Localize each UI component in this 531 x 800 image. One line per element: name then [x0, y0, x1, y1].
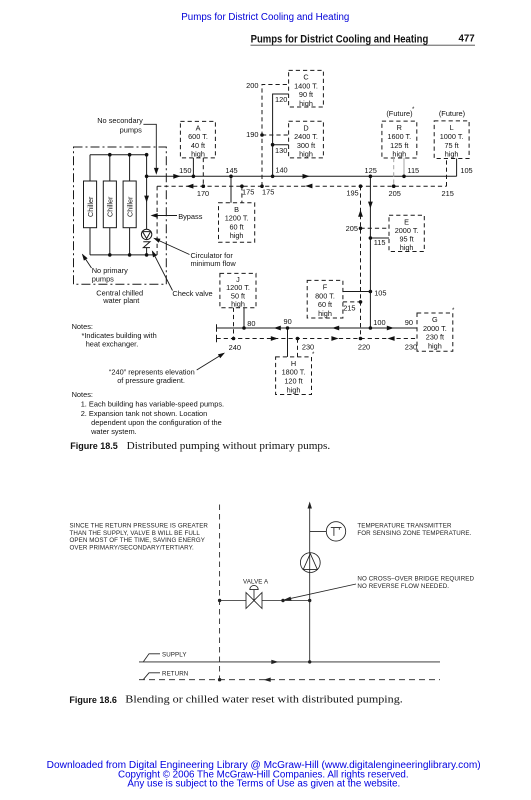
node supply at plant [145, 175, 149, 179]
node R return 205 [392, 184, 396, 188]
building H supply riser [287, 328, 289, 357]
arrowhead bypass [151, 213, 158, 218]
chiller 3 box [123, 181, 136, 228]
building L supply riser [456, 159, 458, 177]
supply main pipe (top loop) [147, 175, 457, 177]
chiller 1 riser bottom [89, 228, 91, 255]
svg-text:205: 205 [389, 189, 401, 198]
central plant dash-dot enclosure [74, 147, 167, 284]
return main line (dashed) [139, 679, 440, 681]
building L return riser (dashed) [446, 159, 448, 187]
svg-text:Figure 18.5: Figure 18.5 [70, 441, 118, 451]
node C/D supply 140 [271, 175, 275, 179]
building A box [180, 121, 215, 157]
svg-text:120: 120 [275, 95, 287, 104]
svg-text:E2000 T.95 fthigh: E2000 T.95 fthigh [395, 217, 419, 252]
building A supply riser [192, 158, 194, 176]
svg-text:D2400 T.300 fthigh: D2400 T.300 fthigh [294, 123, 318, 158]
arrow return left mid [305, 184, 312, 189]
node trunk lower return 220 [359, 337, 363, 341]
node trunk return 195 [359, 184, 363, 188]
arrowhead no-crossover leader [283, 597, 291, 601]
svg-text:170: 170 [197, 189, 209, 198]
svg-text:230: 230 [302, 342, 314, 351]
building F supply branch [343, 291, 371, 293]
building C box [289, 70, 324, 107]
arrow lower return right (west) [271, 336, 278, 341]
svg-text:Check valve: Check valve [172, 289, 212, 298]
building R return riser (gray dashed) [393, 158, 395, 186]
svg-text:dependent upon the configurati: dependent upon the configuration of the [91, 418, 222, 427]
svg-text:Notes:: Notes: [72, 390, 93, 399]
svg-text:SINCE THE RETURN PRESSURE IS G: SINCE THE RETURN PRESSURE IS GREATER [70, 523, 209, 530]
building E supply branch [370, 237, 389, 239]
arrow lower supply left (west) [274, 326, 281, 331]
chiller 3 riser top [129, 155, 131, 181]
arrow down trunk supply riser [368, 202, 373, 209]
building R supply riser (gray) [403, 158, 405, 176]
supply main line [139, 661, 440, 663]
svg-text:water system.: water system. [90, 427, 137, 436]
svg-text:Any use is subject to the Term: Any use is subject to the Terms of Use a… [127, 779, 400, 790]
svg-text:145: 145 [225, 166, 237, 175]
leader 240 note arrow [197, 354, 224, 371]
building F box [307, 280, 343, 318]
svg-text:215: 215 [442, 189, 454, 198]
svg-text:Figure 18.6: Figure 18.6 [69, 695, 117, 705]
building A return riser (dashed) [202, 158, 204, 186]
svg-text:THAN THE SUPPLY, VALVE B WILL: THAN THE SUPPLY, VALVE B WILL BE FULL [70, 530, 201, 537]
svg-text:115: 115 [407, 166, 419, 175]
leader circulator [156, 239, 190, 255]
leader check valve [153, 252, 173, 291]
chiller 1 riser top [89, 155, 91, 181]
svg-text:FOR SENSING ZONE TEMPERATURE.: FOR SENSING ZONE TEMPERATURE. [357, 530, 471, 537]
svg-text:(Future): (Future) [439, 109, 465, 118]
svg-text:G2000 T.230 fthigh: G2000 T.230 fthigh [423, 315, 447, 350]
svg-text:SUPPLY: SUPPLY [162, 651, 187, 658]
svg-text:pumps: pumps [120, 125, 142, 134]
chiller 2 riser bottom [109, 228, 111, 255]
lower loop supply main [217, 327, 418, 329]
building H return riser (dashed) [297, 339, 299, 357]
svg-text:105: 105 [374, 288, 386, 297]
svg-text:*: * [452, 308, 455, 314]
svg-text:*: * [312, 352, 315, 358]
trunk supply riser down to lower loop [369, 176, 371, 328]
node valve branch top [218, 599, 221, 602]
node J supply 80 [242, 326, 246, 330]
building G box [417, 313, 453, 351]
building J box [220, 273, 256, 307]
chiller bottom header pipe [90, 254, 157, 256]
building J return riser (dashed) [233, 308, 235, 339]
svg-text:105: 105 [460, 166, 472, 175]
temperature transmitter TT circle [326, 522, 345, 541]
node E supply 115 [369, 236, 373, 240]
node F supply 105 [369, 290, 373, 294]
svg-text:125: 125 [365, 166, 377, 175]
junction dots bottom header [108, 253, 112, 257]
svg-text:100: 100 [373, 318, 385, 327]
transmitter connector [310, 530, 327, 532]
svg-text:“240” represents elevation: “240” represents elevation [109, 367, 195, 376]
junction dots top header [108, 153, 112, 157]
node trunk lower supply 100 [369, 326, 373, 330]
trunk return riser down (dashed) [360, 186, 362, 338]
valve A actuator dome [250, 585, 258, 589]
valve branch riser (dashed) [219, 505, 221, 681]
building E box [389, 215, 424, 251]
svg-text:A600 T.40 fthigh: A600 T.40 fthigh [188, 123, 208, 158]
svg-text:140: 140 [275, 166, 287, 175]
svg-text:VALVE A: VALVE A [243, 578, 269, 585]
chiller 2 riser top [109, 155, 111, 181]
svg-text:B1200 T.60 fthigh: B1200 T.60 fthigh [225, 205, 249, 240]
node J return 240 [232, 337, 236, 341]
arrowhead supply flow [271, 660, 278, 664]
node D return 190 [260, 133, 264, 137]
leader no primary pumps [83, 255, 92, 269]
svg-text:Chiller: Chiller [86, 196, 95, 217]
svg-text:200: 200 [246, 81, 258, 90]
svg-text:Chiller: Chiller [126, 196, 135, 217]
check valve Z symbol [143, 242, 150, 248]
arrowhead 240 note leader [218, 353, 225, 359]
node C/D return 175 [260, 184, 264, 188]
chiller 2 box [103, 181, 116, 228]
bypass pipe lower stub [146, 248, 148, 255]
pump circle [300, 553, 320, 573]
building E return branch (dashed) [361, 227, 390, 229]
arrow return left near plant [186, 184, 193, 189]
return label leader [144, 673, 161, 680]
arrow lower supply left (center) [332, 326, 339, 331]
svg-text:215: 215 [343, 304, 355, 313]
node valve branch return tap [218, 678, 221, 681]
C/D return riser with elbow to C (dashed) [262, 85, 289, 187]
svg-text:190: 190 [246, 130, 258, 139]
building B return riser (dashed) [241, 186, 243, 203]
valve branch pipe right [262, 600, 310, 602]
node F return 215 [359, 300, 363, 304]
svg-text:C1400 T.90 fthigh: C1400 T.90 fthigh [294, 73, 318, 108]
svg-text:90: 90 [405, 318, 413, 327]
svg-text:minimum flow: minimum flow [191, 259, 237, 268]
svg-text:pumps: pumps [92, 275, 114, 284]
arrowhead no primary leader [82, 254, 88, 261]
chiller top header pipe [90, 154, 147, 156]
svg-text:OVER PRIMARY/SECONDARY/TERTIAR: OVER PRIMARY/SECONDARY/TERTIARY. [70, 545, 195, 552]
svg-text:175: 175 [242, 188, 254, 197]
svg-text:220: 220 [358, 342, 370, 351]
circulator symbol [141, 229, 151, 239]
zone riser pipe [309, 504, 311, 663]
pump impeller triangle [303, 554, 317, 570]
svg-text:90: 90 [284, 317, 292, 326]
valve A body bowtie [246, 593, 262, 609]
svg-text:175: 175 [262, 188, 274, 197]
node R supply 115 [402, 175, 406, 179]
svg-text:of pressure gradient.: of pressure gradient. [117, 376, 185, 385]
arrowhead up zone riser [308, 502, 312, 509]
node B return 175 [240, 184, 244, 188]
svg-text:water plant: water plant [102, 296, 139, 305]
chiller 1 box [84, 181, 97, 228]
C/D supply riser with elbow to C [273, 94, 289, 176]
svg-text:150: 150 [179, 166, 191, 175]
building F return branch (dashed) [343, 301, 361, 303]
arrowhead circulator leader [153, 238, 160, 243]
svg-text:205: 205 [346, 224, 358, 233]
svg-text:*: * [412, 107, 415, 113]
supply label leader [144, 654, 161, 662]
node E return 205 [359, 227, 363, 231]
arrowhead check valve leader [152, 250, 157, 257]
D supply branch [273, 144, 289, 146]
TT symbol marks [331, 528, 342, 536]
svg-text:RETURN: RETURN [162, 671, 188, 678]
node bridge junction [281, 599, 284, 602]
svg-text:Bypass: Bypass [178, 212, 203, 221]
header rule [251, 44, 476, 46]
arrow down bypass flow [144, 196, 149, 203]
svg-text:H1800 T.120 fthigh: H1800 T.120 fthigh [282, 359, 306, 394]
building L box (future) [434, 121, 469, 159]
svg-text:R1600 T.125 fthigh: R1600 T.125 fthigh [387, 123, 411, 158]
svg-text:80: 80 [247, 319, 255, 328]
node H supply 90 [286, 326, 290, 330]
arrow lower return right (center) [331, 336, 338, 341]
building B box [219, 203, 255, 243]
return main pipe (top loop, dashed) [157, 185, 446, 187]
arrow supply right mid [303, 174, 310, 179]
svg-text:OPEN MOST OF THE TIME, SAVING: OPEN MOST OF THE TIME, SAVING ENERGY [70, 537, 206, 544]
FIGURE 18.6 [139, 504, 440, 681]
return drop into plant (dashed) [156, 186, 158, 255]
svg-text:Pumps for District Cooling and: Pumps for District Cooling and Heating [181, 12, 349, 23]
svg-text:NO CROSS–OVER BRIDGE REQUIRED: NO CROSS–OVER BRIDGE REQUIRED [357, 576, 474, 583]
arrow down no-secondary leader [154, 168, 159, 175]
svg-text:L1000 T.75 fthigh: L1000 T.75 fthigh [440, 123, 464, 158]
lower loop return main (dashed) [217, 338, 418, 340]
svg-text:(Future): (Future) [386, 109, 412, 118]
svg-text:Blending or chilled water rese: Blending or chilled water reset with dis… [125, 695, 403, 706]
building H box [276, 357, 312, 395]
node A return 170 [202, 184, 206, 188]
svg-text:130: 130 [275, 146, 287, 155]
leader no-crossover [285, 584, 356, 600]
arrow supply right near plant [173, 174, 180, 179]
svg-text:477: 477 [459, 34, 475, 45]
chiller 3 riser bottom [129, 228, 131, 255]
svg-text:F800 T.60 fthigh: F800 T.60 fthigh [315, 283, 335, 318]
lower loop return end cap [216, 335, 218, 342]
building D box [289, 121, 324, 158]
valve branch pipe left [220, 600, 246, 602]
leader bypass arrow [153, 215, 178, 217]
arrow lower return left (east) [387, 336, 394, 341]
node B supply 145 [229, 175, 233, 179]
bypass pipe [146, 155, 148, 230]
svg-text:195: 195 [346, 189, 358, 198]
building B supply riser [230, 176, 232, 202]
node A supply 150 [192, 175, 196, 179]
node D supply 130 [271, 143, 275, 147]
svg-text:115: 115 [374, 238, 386, 247]
svg-text:No secondary: No secondary [97, 116, 143, 125]
node trunk supply 125 [369, 175, 373, 179]
svg-text:240: 240 [229, 343, 241, 352]
svg-text:Notes:: Notes: [72, 322, 93, 331]
building J supply riser [243, 308, 245, 328]
svg-text:2. Expansion tank not shown. L: 2. Expansion tank not shown. Location [81, 409, 208, 418]
svg-text:J1200 T.50 fthigh: J1200 T.50 fthigh [226, 275, 250, 309]
building R box (future) [382, 121, 417, 158]
svg-text:230: 230 [405, 342, 417, 351]
svg-text:NO REVERSE FLOW NEEDED.: NO REVERSE FLOW NEEDED. [357, 583, 449, 590]
svg-text:Pumps for District Cooling and: Pumps for District Cooling and Heating [251, 33, 429, 45]
node H return 230 [296, 337, 300, 341]
svg-text:heat exchanger.: heat exchanger. [86, 340, 139, 349]
D return branch (dashed) [262, 134, 289, 136]
node zone riser supply tap [308, 660, 311, 663]
svg-text:Distributed pumping without pr: Distributed pumping without primary pump… [127, 441, 331, 452]
svg-text:Chiller: Chiller [106, 196, 115, 217]
leader no secondary pumps [143, 124, 156, 168]
svg-text:1. Each building has variable-: 1. Each building has variable-speed pump… [81, 399, 224, 408]
arrowhead return flow [264, 678, 271, 682]
arrow lower supply right [387, 326, 394, 331]
svg-text:TEMPERATURE TRANSMITTER: TEMPERATURE TRANSMITTER [357, 523, 452, 530]
node zone riser valve junction [308, 599, 311, 602]
arrow up trunk return riser [358, 210, 363, 217]
lower loop supply end cap [216, 324, 218, 331]
valve A stem [253, 590, 255, 601]
